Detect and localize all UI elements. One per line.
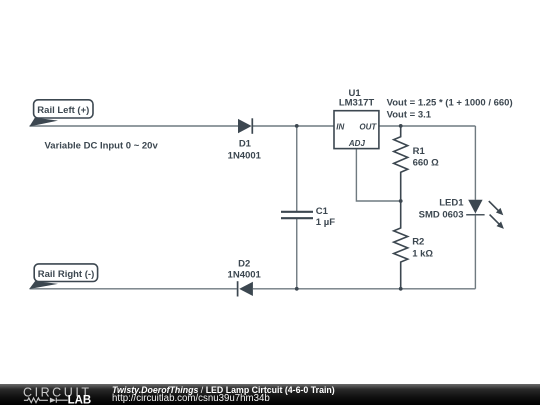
label D2 — [238, 259, 250, 270]
flag Rail Right (-) — [29, 264, 97, 289]
annotation Vout formula — [387, 98, 513, 109]
svg-text:D2: D2 — [238, 259, 250, 270]
wire LED branch vertical — [474, 126, 476, 289]
node junction top of C1 — [295, 124, 299, 128]
pin label ADJ — [348, 139, 366, 148]
footer bar — [0, 384, 540, 405]
svg-text:LM317T: LM317T — [339, 98, 375, 109]
label D1 — [239, 138, 252, 149]
svg-text:SMD 0603: SMD 0603 — [419, 210, 464, 221]
node junction bottom of R2 — [399, 287, 403, 291]
node junction bottom of C1 — [295, 287, 299, 291]
wire U1 ADJ to R1/R2 node — [356, 149, 400, 201]
annotation Variable DC Input — [45, 141, 159, 152]
LED light arrow 1 — [489, 201, 504, 215]
svg-text:LED1: LED1 — [439, 197, 464, 208]
svg-text:OUT: OUT — [359, 122, 377, 131]
flag Rail Left (+) — [29, 100, 93, 127]
label R1 — [413, 146, 426, 157]
svg-text:D1: D1 — [239, 138, 252, 149]
diode D2 — [238, 281, 253, 296]
label LED1 — [439, 197, 464, 208]
label U1 — [349, 88, 362, 99]
svg-text:LAB: LAB — [68, 394, 92, 405]
node junction R1/R2/ADJ — [399, 199, 403, 203]
svg-text:Rail Left (+): Rail Left (+) — [37, 105, 89, 116]
svg-text:R1: R1 — [413, 146, 426, 157]
svg-text:1N4001: 1N4001 — [228, 150, 262, 161]
svg-text:IN: IN — [336, 122, 344, 131]
wire top rail D1-to-U1 segment — [252, 125, 334, 127]
svg-text:ADJ: ADJ — [348, 139, 366, 148]
value LM317T — [339, 98, 375, 109]
label C1 — [316, 206, 329, 217]
annotation Vout value — [387, 110, 432, 121]
svg-text:Vout = 3.1: Vout = 3.1 — [387, 110, 432, 121]
wire U1 OUT to top-right corner — [379, 125, 476, 127]
svg-text:Rail Right (-): Rail Right (-) — [38, 269, 94, 280]
pin label OUT — [359, 122, 377, 131]
svg-text:1 µF: 1 µF — [316, 217, 335, 228]
svg-text:R2: R2 — [412, 236, 424, 247]
diode D1 — [238, 118, 252, 134]
footer url text — [112, 393, 270, 404]
wire top rail left segment — [30, 125, 239, 127]
value 660 Ohm — [413, 157, 439, 168]
value 1N4001 (D1) — [228, 150, 262, 161]
LED light arrow 2 — [490, 215, 504, 229]
value SMD 0603 — [419, 210, 464, 221]
LED LED1 — [466, 200, 484, 215]
svg-text:1N4001: 1N4001 — [228, 269, 262, 280]
wire bottom rail left segment — [30, 288, 237, 290]
resistor R1 — [394, 127, 408, 201]
label R2 — [412, 236, 424, 247]
pin label IN — [336, 122, 344, 131]
svg-text:Variable DC Input 0 ~ 20v: Variable DC Input 0 ~ 20v — [45, 141, 159, 152]
CircuitLab logo — [21, 385, 97, 405]
svg-text:Vout = 1.25 * (1 + 1000 / 660): Vout = 1.25 * (1 + 1000 / 660) — [387, 98, 513, 109]
resistor R2 — [394, 201, 408, 289]
svg-text:1 kΩ: 1 kΩ — [412, 248, 433, 259]
capacitor C1 — [281, 212, 313, 218]
svg-text:C1: C1 — [316, 206, 329, 217]
svg-text:660 Ω: 660 Ω — [413, 157, 439, 168]
value 1N4001 (D2) — [228, 269, 262, 280]
wire bottom rail right segment — [253, 288, 475, 290]
op-amp U1 regulator box LM317T — [334, 111, 379, 149]
wire C1 branch vertical — [296, 126, 298, 289]
value 1 uF — [316, 217, 335, 228]
value 1 kOhm — [412, 248, 433, 259]
footer title text — [112, 385, 335, 395]
node junction top of R1 — [399, 124, 403, 128]
